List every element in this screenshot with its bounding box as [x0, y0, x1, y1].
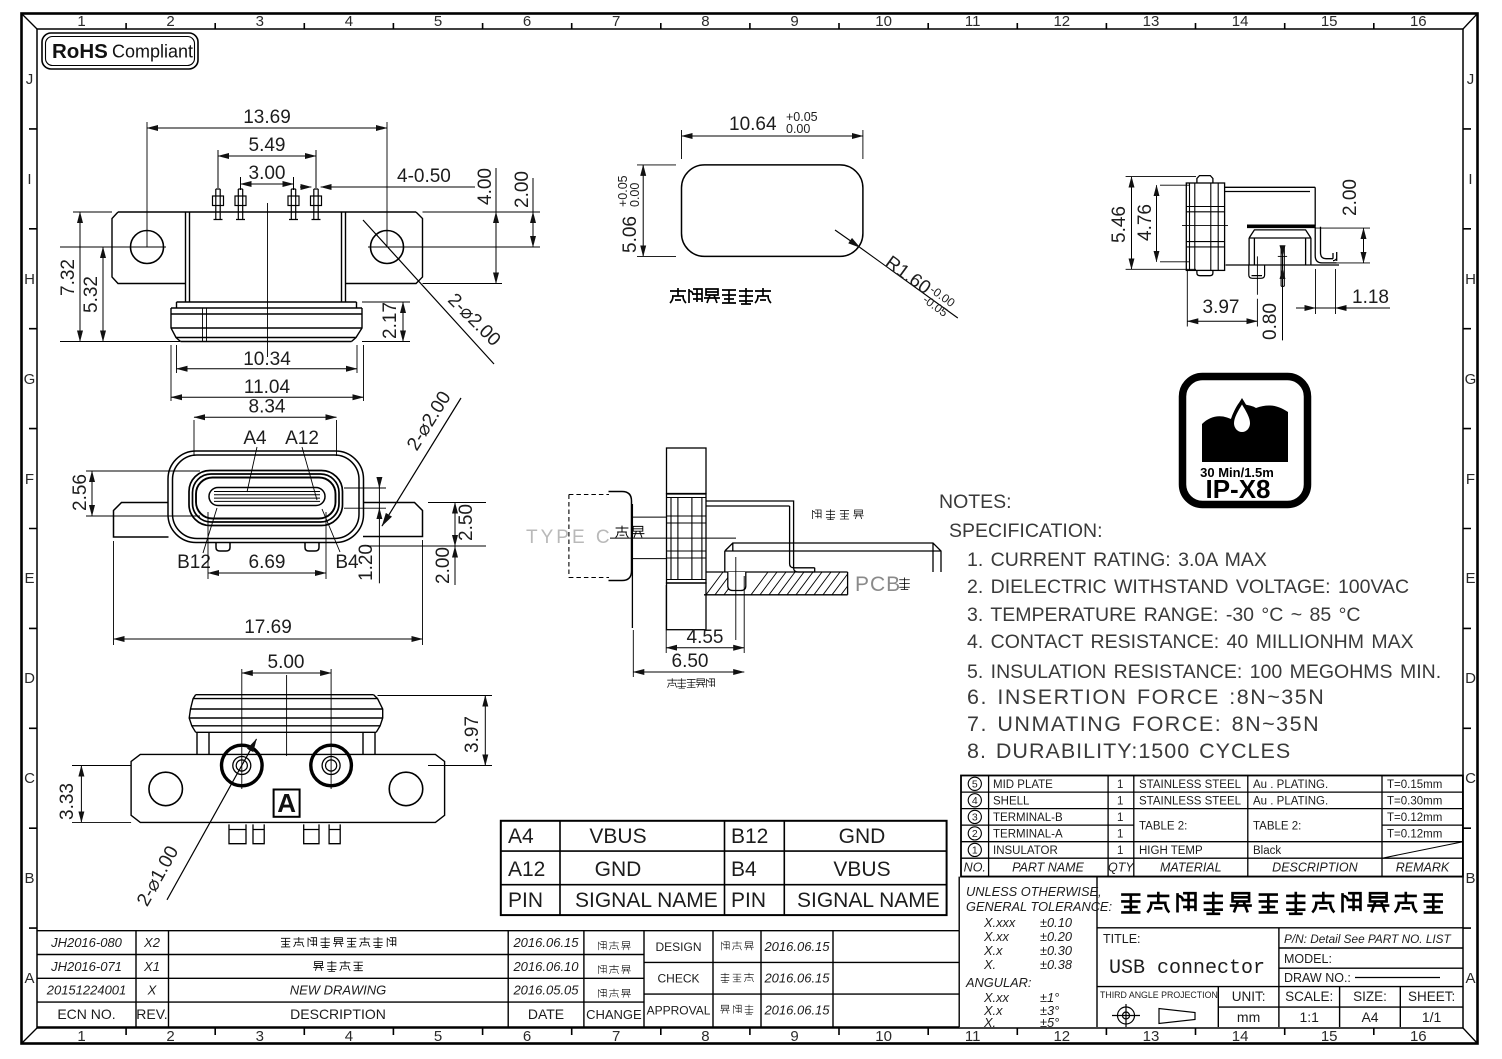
dim 6.69 [208, 512, 326, 579]
svg-text:HIGH TEMP: HIGH TEMP [1139, 845, 1203, 857]
svg-text:CHECK: CHECK [657, 972, 699, 986]
svg-text:0.00: 0.00 [786, 122, 810, 136]
svg-text:DESCRIPTION: DESCRIPTION [290, 1006, 386, 1022]
svg-text:TERMINAL-B: TERMINAL-B [993, 812, 1063, 824]
barrel side profile left [189, 695, 196, 733]
svg-text:4-0.50: 4-0.50 [397, 166, 451, 187]
svg-text:11: 11 [965, 1028, 981, 1045]
dim 4.00 right [423, 212, 541, 284]
svg-text:6: 6 [523, 13, 531, 30]
rev description hanzi row1 [281, 937, 396, 948]
svg-text:5.06: 5.06 [620, 216, 641, 253]
svg-text:APPROVAL: APPROVAL [647, 1003, 711, 1017]
svg-text:5.46: 5.46 [1109, 206, 1130, 243]
svg-text:SIGNAL NAME: SIGNAL NAME [797, 889, 940, 912]
mounting hole left [131, 231, 164, 264]
svg-text:G: G [24, 371, 36, 388]
svg-text:3.97: 3.97 [1203, 297, 1240, 318]
left drain bump [216, 543, 230, 551]
svg-text:TERMINAL-A: TERMINAL-A [993, 829, 1063, 841]
seal face ring inner [196, 478, 336, 519]
revision rows [46, 935, 580, 998]
dim 5.49 [218, 150, 316, 188]
svg-text:DATE: DATE [528, 1006, 564, 1022]
terminal housing [725, 543, 941, 572]
svg-text:STAINLESS STEEL: STAINLESS STEEL [1139, 795, 1242, 807]
svg-text:UNIT:: UNIT: [1232, 989, 1266, 1004]
left board-lock wing [114, 503, 169, 538]
svg-text:X1: X1 [143, 959, 160, 974]
svg-text:B12: B12 [177, 552, 211, 573]
svg-text:8: 8 [701, 1028, 709, 1045]
svg-text:7.32: 7.32 [58, 259, 79, 296]
svg-text:±0.30: ±0.30 [1040, 943, 1073, 958]
svg-text:A: A [1465, 970, 1475, 987]
svg-text:B: B [1465, 870, 1475, 887]
revision table grid [37, 931, 959, 1027]
svg-text:D: D [1465, 670, 1476, 687]
svg-text:E: E [24, 570, 34, 587]
svg-text:10: 10 [875, 1028, 892, 1045]
dim 13.69 [147, 127, 387, 129]
svg-text:A4: A4 [243, 428, 267, 449]
shell body front [186, 212, 346, 302]
svg-text:9: 9 [790, 1028, 798, 1045]
dim 2.17 right of seal [362, 302, 410, 342]
RoHS badge outer frame [42, 33, 198, 69]
svg-text:6: 6 [523, 1028, 531, 1045]
svg-text:JH2016-080: JH2016-080 [50, 935, 123, 950]
svg-text:G: G [1465, 371, 1477, 388]
svg-text:3.00: 3.00 [249, 163, 286, 184]
svg-text:3: 3 [256, 1028, 264, 1045]
svg-text:VBUS: VBUS [833, 858, 890, 881]
right board-lock wing [363, 503, 423, 537]
solder pin 4 [311, 189, 322, 220]
post center lines [242, 669, 331, 789]
svg-text:SHEET:: SHEET: [1408, 989, 1455, 1004]
svg-text:PIN: PIN [508, 889, 543, 912]
svg-text:A4: A4 [1361, 1009, 1378, 1025]
svg-text:2: 2 [166, 1028, 174, 1045]
svg-text:1: 1 [77, 1028, 85, 1045]
leader 2-d2.00 to drain bumps [382, 398, 461, 526]
svg-text:2.56: 2.56 [70, 474, 91, 511]
svg-text:4: 4 [345, 13, 353, 30]
svg-text:16: 16 [1410, 1028, 1427, 1045]
svg-text:3: 3 [972, 812, 978, 824]
label leader lines [203, 447, 340, 553]
remark diagonal [1382, 842, 1463, 859]
svg-text:INSULATOR: INSULATOR [993, 845, 1058, 857]
svg-text:5. INSULATION RESISTANCE: 1: 5. INSULATION RESISTANCE: 100 MEGOHMS MI… [967, 661, 1441, 683]
svg-text:1: 1 [972, 845, 978, 857]
svg-text:11.04: 11.04 [244, 377, 291, 398]
svg-text:2016.06.15: 2016.06.15 [512, 935, 579, 950]
centerline [267, 203, 269, 357]
svg-text:8: 8 [701, 13, 709, 30]
seal barrel side section [667, 494, 707, 583]
svg-text:15: 15 [1321, 1028, 1338, 1045]
bottom pin 3 [304, 824, 319, 843]
svg-text:THIRD ANGLE PROJECTION: THIRD ANGLE PROJECTION [1100, 990, 1218, 1000]
svg-text:7: 7 [612, 1028, 620, 1045]
svg-text:A4: A4 [508, 825, 534, 848]
svg-text:14: 14 [1232, 13, 1249, 30]
svg-text:±0.20: ±0.20 [1040, 929, 1073, 944]
right drain bump [305, 543, 319, 551]
svg-text:13: 13 [1143, 1028, 1160, 1045]
svg-text:IP-X8: IP-X8 [1205, 474, 1270, 504]
svg-text:0.80: 0.80 [1260, 303, 1281, 340]
svg-text:REV.: REV. [136, 1006, 167, 1022]
shell top [1225, 187, 1316, 191]
title block grid [959, 877, 1463, 1027]
svg-text:I: I [27, 171, 31, 188]
svg-text:X.xxx: X.xxx [983, 915, 1016, 930]
dim 4.55 [666, 576, 744, 653]
dim 1.18 [1316, 269, 1336, 314]
svg-text:1.18: 1.18 [1352, 287, 1389, 308]
header row [964, 861, 1450, 875]
dim 5.46 [1126, 177, 1196, 270]
dim 2.00 right lower [454, 550, 456, 586]
projection symbol cone [1159, 1009, 1195, 1024]
svg-text:Au . PLATING.: Au . PLATING. [1253, 779, 1328, 791]
svg-text:CHANGE: CHANGE [586, 1007, 642, 1022]
svg-text:2016.05.05: 2016.05.05 [512, 983, 579, 998]
svg-text:15: 15 [1321, 13, 1338, 30]
svg-text:4: 4 [972, 795, 978, 807]
svg-text:8. DURABILITY:1500 CYCLES: 8. DURABILITY:1500 CYCLES [967, 739, 1291, 763]
svg-text:5.00: 5.00 [268, 652, 305, 673]
solder pin 3 [288, 189, 299, 220]
plate mounting hole right [389, 772, 423, 806]
svg-text:3: 3 [256, 13, 264, 30]
svg-text:GND: GND [839, 825, 886, 848]
svg-text:5.32: 5.32 [81, 276, 102, 313]
leader 2-d2.00 to right mounting hole [363, 220, 494, 364]
mounting hole right [371, 231, 404, 264]
base plate with chamfered corners [131, 754, 445, 822]
dim 7.32 left [60, 212, 180, 342]
dim 10.64 [682, 130, 863, 159]
svg-text:MATERIAL: MATERIAL [1160, 861, 1222, 875]
dim 2.00 right [1315, 228, 1370, 263]
svg-text:J: J [26, 71, 34, 88]
svg-text:2016.06.15: 2016.06.15 [763, 971, 830, 986]
svg-text:SIZE:: SIZE: [1353, 989, 1387, 1004]
svg-text:B: B [24, 870, 34, 887]
body side walls to plate [197, 732, 375, 754]
svg-text:X: X [147, 983, 158, 998]
svg-text:2.17: 2.17 [380, 302, 401, 339]
seal ring side edges [171, 308, 362, 342]
bottom pin 4 [329, 824, 340, 843]
svg-text:20151224001: 20151224001 [46, 983, 127, 998]
svg-text:MID PLATE: MID PLATE [993, 779, 1053, 791]
svg-text:C: C [24, 770, 35, 787]
svg-text:X.xx: X.xx [983, 929, 1009, 944]
rivet post left [222, 745, 263, 786]
svg-text:10.34: 10.34 [243, 349, 291, 370]
svg-text:16: 16 [1410, 13, 1427, 30]
droplet white core [1234, 405, 1250, 433]
svg-text:B12: B12 [731, 825, 768, 848]
svg-text:E: E [1465, 570, 1475, 587]
svg-text:8.34: 8.34 [249, 397, 286, 418]
shell foot on PCB [790, 541, 815, 572]
company name hanzi [1121, 892, 1443, 914]
seal collar top [177, 302, 357, 308]
svg-text:TABLE 2:: TABLE 2: [1139, 821, 1187, 833]
shell body right [706, 501, 794, 541]
svg-text:P/N: Detail See PART NO. L: P/N: Detail See PART NO. LIST [1284, 932, 1452, 946]
projection symbol circle [1112, 1004, 1195, 1027]
barrel bottom cap [1197, 270, 1213, 275]
svg-text:5.49: 5.49 [249, 135, 286, 156]
RoHS badge inner frame [46, 37, 195, 66]
svg-text:T=0.30mm: T=0.30mm [1387, 795, 1442, 807]
parts table grid [961, 776, 1463, 877]
dim 10.34 [177, 345, 358, 373]
svg-text:4.55: 4.55 [687, 627, 724, 648]
insulator trapezoid [1249, 230, 1311, 265]
svg-text:1: 1 [77, 13, 85, 30]
svg-text:2.00: 2.00 [1340, 179, 1361, 216]
circled item numbers 5..1 [968, 777, 981, 856]
svg-text:3.97: 3.97 [462, 716, 483, 753]
pin table grid [501, 821, 947, 915]
svg-text:12: 12 [1053, 1028, 1070, 1045]
svg-text:PCB: PCB [855, 573, 901, 596]
rev description hanzi row2 [313, 961, 363, 972]
dim 3.00 [241, 177, 294, 190]
dim 1.20 tongue thickness [344, 488, 386, 508]
barrel side profile right [374, 695, 383, 733]
seal seam lines [203, 308, 207, 341]
droplet outline [1231, 398, 1254, 436]
svg-text:GENERAL TOLERANCE:: GENERAL TOLERANCE: [966, 899, 1112, 914]
dim 0.80 [1278, 255, 1287, 257]
svg-text:±0.10: ±0.10 [1040, 915, 1073, 930]
svg-text:PART NAME: PART NAME [1012, 861, 1084, 875]
dim 11.04 [171, 345, 364, 401]
left through-leg [1249, 265, 1265, 278]
svg-text:3. TEMPERATURE RANGE: -30 °: 3. TEMPERATURE RANGE: -30 °C ~ 85 °C [967, 604, 1361, 626]
corner diagonal bottom-right [1463, 1028, 1478, 1044]
dim 2.50 right [367, 503, 486, 547]
plug contact lines [610, 517, 736, 559]
panel wall line [631, 504, 633, 628]
dim 2.00 right [532, 178, 534, 212]
svg-text:TABLE 2:: TABLE 2: [1253, 821, 1301, 833]
svg-text:13: 13 [1143, 13, 1160, 30]
svg-text:A12: A12 [508, 858, 545, 881]
barrel body side view [1186, 183, 1224, 270]
svg-text:SPECIFICATION:: SPECIFICATION: [949, 520, 1103, 542]
svg-text:2016.06.15: 2016.06.15 [763, 1002, 830, 1017]
svg-text:1.20: 1.20 [356, 544, 377, 581]
corner diagonal bottom-left [22, 1028, 38, 1044]
installation diagram hanzi caption [667, 678, 714, 688]
seal ring stack [171, 308, 362, 342]
outer shell stadium [168, 451, 364, 543]
svg-text:2. DIELECTRIC WITHSTAND VOL: 2. DIELECTRIC WITHSTAND VOLTAGE: 100VAC [967, 576, 1409, 598]
svg-text:SIGNAL NAME: SIGNAL NAME [575, 889, 718, 912]
PCB hatching [706, 572, 848, 595]
svg-text:J: J [1467, 71, 1475, 88]
svg-text:X2: X2 [143, 935, 161, 950]
panel cutout rounded rect [682, 165, 863, 257]
svg-text:Au . PLATING.: Au . PLATING. [1253, 795, 1328, 807]
svg-text:1:1: 1:1 [1299, 1009, 1319, 1025]
bottom pin 1 [229, 824, 246, 843]
svg-text:2.50: 2.50 [456, 504, 477, 541]
hole center lines [60, 122, 540, 247]
seal face ring outer [189, 471, 343, 526]
centerline below [735, 557, 737, 640]
svg-text:12: 12 [1053, 13, 1070, 30]
svg-text:X.: X. [983, 1015, 996, 1030]
svg-text:±5°: ±5° [1040, 1015, 1059, 1030]
leader 2-d1.00 to rivet post [167, 739, 257, 900]
svg-text:GND: GND [595, 858, 642, 881]
svg-text:11: 11 [965, 13, 981, 30]
svg-text:NO.: NO. [964, 861, 986, 875]
svg-text:X.x: X.x [983, 943, 1003, 958]
design block names hanzi [720, 941, 754, 1014]
svg-text:1. CURRENT RATING: 3.0A MA: 1. CURRENT RATING: 3.0A MAX [967, 549, 1267, 571]
solder pin 1 [213, 189, 224, 220]
IP-X8 logo border [1183, 377, 1308, 505]
dim 2.56 left [86, 471, 200, 516]
svg-text:PIN: PIN [731, 889, 766, 912]
svg-text:1: 1 [1117, 845, 1123, 857]
svg-text:5: 5 [434, 1028, 442, 1045]
section label A box [274, 790, 300, 817]
svg-text:ANGULAR:: ANGULAR: [965, 975, 1032, 990]
flange ear bottom (edge view) [667, 583, 707, 630]
change names hanzi [598, 941, 630, 998]
flange ear top (edge view) [667, 448, 707, 494]
svg-text:2016.06.15: 2016.06.15 [763, 939, 830, 954]
svg-text:2.00: 2.00 [512, 171, 533, 208]
left mounting ear [112, 212, 186, 284]
svg-text:2016.06.10: 2016.06.10 [512, 959, 579, 974]
svg-text:DRAW NO.:: DRAW NO.: [1284, 971, 1351, 985]
through-hole leg in PCB [728, 572, 746, 591]
svg-text:6.50: 6.50 [672, 651, 709, 672]
flange top edge [118, 211, 416, 213]
svg-text:SCALE:: SCALE: [1285, 989, 1333, 1004]
svg-text:UNLESS OTHERWISE,: UNLESS OTHERWISE, [966, 884, 1102, 899]
svg-text:H: H [24, 271, 35, 288]
PCB outline [704, 572, 848, 595]
svg-text:17.69: 17.69 [244, 617, 292, 638]
svg-text:T=0.15mm: T=0.15mm [1387, 779, 1442, 791]
tongue inner lines [214, 492, 320, 502]
svg-text:±0.38: ±0.38 [1040, 957, 1073, 972]
svg-text:A12: A12 [285, 428, 319, 449]
svg-text:NOTES:: NOTES: [939, 491, 1012, 513]
cutout caption hanzi [670, 288, 771, 304]
corner diagonal top-right [1463, 14, 1478, 30]
svg-text:1: 1 [1117, 779, 1123, 791]
svg-text:1: 1 [1117, 795, 1123, 807]
svg-text:6.69: 6.69 [249, 552, 286, 573]
corner diagonal top-left [22, 14, 38, 30]
svg-text:1: 1 [1117, 829, 1123, 841]
plate mounting hole left [149, 772, 183, 806]
svg-text:14: 14 [1232, 1028, 1249, 1045]
svg-text:C: C [1465, 770, 1476, 787]
design block dates [763, 939, 830, 1017]
dim 6.50 [632, 630, 634, 677]
center pin leg [1281, 246, 1284, 286]
dim 17.69 [114, 540, 423, 645]
svg-text:MODEL:: MODEL: [1284, 952, 1332, 966]
dim 3.97 right [378, 696, 493, 766]
svg-text:5: 5 [434, 13, 442, 30]
seal face ring middle [193, 474, 340, 522]
shell inner offset outline [173, 455, 360, 539]
rivet post right [311, 745, 352, 786]
svg-text:4. CONTACT RESISTANCE: 40: 4. CONTACT RESISTANCE: 40 MILLIONHM MAX [967, 631, 1414, 653]
svg-text:2: 2 [166, 13, 174, 30]
svg-text:TITLE:: TITLE: [1103, 932, 1141, 946]
svg-text:DESCRIPTION: DESCRIPTION [1272, 861, 1358, 875]
svg-text:VBUS: VBUS [589, 825, 646, 848]
svg-text:T=0.12mm: T=0.12mm [1387, 812, 1442, 824]
plug hanzi label (gray) [616, 526, 645, 538]
svg-text:2: 2 [972, 828, 978, 840]
svg-text:A: A [24, 970, 34, 987]
water wave fill [1202, 400, 1288, 462]
tolerance block text [965, 884, 1112, 1030]
svg-text:X.: X. [983, 957, 996, 972]
svg-text:6. INSERTION FORCE :8N~35N: 6. INSERTION FORCE :8N~35N [967, 685, 1325, 709]
svg-text:Black: Black [1253, 845, 1281, 857]
shell right edge [1314, 187, 1316, 226]
svg-text:mm: mm [1237, 1009, 1260, 1025]
shell bottom edge [1226, 264, 1339, 266]
svg-text:STAINLESS STEEL: STAINLESS STEEL [1139, 779, 1242, 791]
svg-text:4.00: 4.00 [475, 168, 496, 205]
dim 5.32 left [102, 247, 104, 342]
dim 3.33 left [72, 766, 131, 823]
svg-text:H: H [1465, 271, 1476, 288]
seal barrel stack (back view) [189, 695, 383, 733]
svg-text:SHELL: SHELL [993, 795, 1030, 807]
svg-text:F: F [1466, 471, 1475, 488]
dashed plug body [569, 495, 609, 578]
svg-text:T=0.12mm: T=0.12mm [1387, 829, 1442, 841]
svg-text:13.69: 13.69 [243, 107, 291, 128]
leader R1.60 [835, 230, 860, 248]
svg-text:9: 9 [790, 13, 798, 30]
svg-text:RoHS: RoHS [52, 40, 108, 63]
dim 5.06 [637, 165, 676, 257]
svg-text:I: I [1468, 171, 1472, 188]
dim 4.76 [1160, 185, 1190, 262]
dim 3.97 bottom [1187, 256, 1257, 326]
tongue capsule [209, 488, 325, 506]
svg-text:A: A [277, 788, 296, 818]
mount tab right [1315, 227, 1337, 263]
svg-text:QTY: QTY [1108, 861, 1135, 875]
plug tip outline [609, 492, 632, 581]
